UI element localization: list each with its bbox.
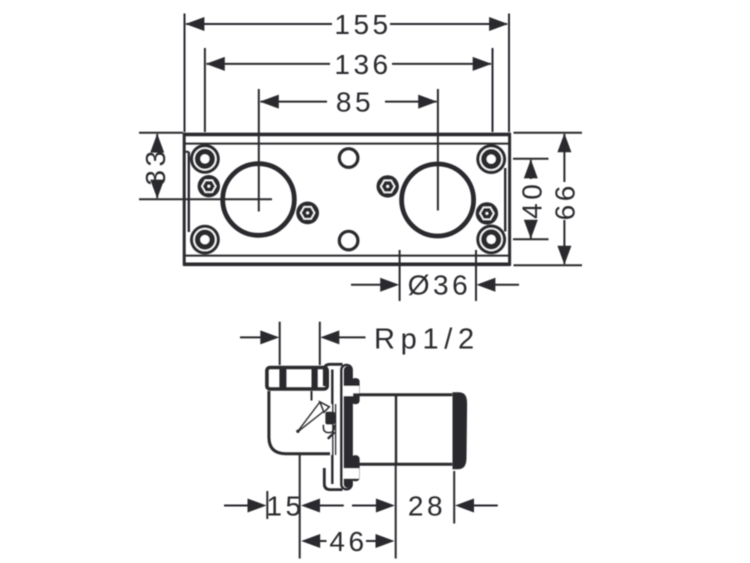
dimension 85 line [261,101,437,103]
screw bottom-left [190,225,220,255]
dimension 46 tail left [320,540,327,542]
svg-text:46: 46 [329,526,367,557]
plate top band inner line [184,143,510,145]
centerline vertical left circle [258,89,260,212]
dimension Rp1/2 extension left [279,322,281,365]
dimension 15 tail right [319,505,344,507]
dimension Rp1/2 arrow right [320,330,339,344]
svg-text:136: 136 [334,49,391,80]
dimension 136 arrow right [473,57,492,71]
plate bottom edge [184,262,511,266]
dimension 66 arrow down [557,246,571,265]
nut left of right circle [377,175,399,197]
dimension 136 arrow left [206,57,225,71]
dimension 15 tail left [224,505,249,507]
dimension D36 line left [351,284,382,286]
svg-text:40: 40 [517,181,548,219]
plate right edge [508,133,511,266]
valve lower stub [328,432,335,439]
dimension 40 arrow down [524,220,538,239]
dimension 155 extension right [508,14,510,133]
flange tab bottom [351,455,359,481]
dimension 85 arrow right [418,95,437,109]
plate left edge [183,133,186,266]
elbow body outline [269,391,330,454]
collar thread bar right [312,367,318,390]
centerline vertical right circle [437,89,439,211]
svg-text:15: 15 [266,491,304,522]
plate top edge [184,133,511,137]
collar threaded nut [267,368,327,390]
plate bottom band inner line [184,255,510,257]
pipe bottom edge [353,463,452,466]
dimension 33 arrow up [150,134,164,153]
dimension 136 line [207,63,492,65]
dimension 46 extension left [299,455,301,559]
pipe divider line [395,396,397,463]
flange central bar outline [341,365,351,489]
dimension Rp1/2 line left [240,336,262,338]
svg-text:28: 28 [408,491,446,522]
flange thin line 1 [332,404,334,455]
dimension D36 line right [494,284,519,286]
flange upper lip [331,370,333,405]
hole circle right [402,164,474,236]
flange tab top [351,378,359,404]
dimension 33 arrow down [150,180,164,199]
svg-text:85: 85 [336,87,374,118]
flange top hook [324,364,342,386]
dimension D36 extension right [475,250,477,301]
elbow inner bore line [311,391,313,401]
dimension 28 tail right [473,505,498,507]
dimension 46 arrow right [376,534,395,548]
TOP VIEW [139,9,582,301]
dimension D36 extension left [399,250,401,301]
valve dark section [325,412,335,425]
dimension Rp1/2 line right [338,336,366,338]
pipe end cap [453,392,468,469]
flange window bottom [344,468,360,478]
screw top-right [476,144,506,174]
flange thin line 2 [335,404,337,455]
nut right of left circle [296,202,319,225]
svg-text:33: 33 [140,147,171,185]
dimension 15 arrow left [248,499,267,513]
dimension 66 extension top [514,132,583,134]
screw bottom-right [476,225,506,255]
small hole top center [339,149,358,168]
nut left column [198,175,220,197]
dimension D36 arrow right [476,278,495,292]
nut right column [476,202,498,224]
dimension D36 arrow left [380,278,399,292]
dimension 136 extension left [204,48,206,132]
dimension 28 arrow right [455,499,474,513]
svg-text:155: 155 [334,9,391,40]
dimension 28 extension right [453,471,455,524]
svg-text:Rp1/2: Rp1/2 [374,324,480,356]
dimension 66 extension bottom [514,264,583,266]
dimension Rp1/2 arrow left [260,330,279,344]
dimension 155 arrow right [489,17,508,31]
valve needle tip dot [296,430,299,433]
dimension 66 line [563,134,565,264]
dimension 40 extension top [513,158,549,160]
flange bottom hook [324,468,342,490]
dimension Rp1/2 extension right [319,322,321,365]
dimension 15 extension left [266,491,268,519]
dimension 46 tail right [366,540,377,542]
dimension 136 extension right [492,48,494,132]
flange central dark line [344,366,352,488]
small hole bottom center [339,231,358,250]
collar thread bar left [279,367,286,390]
svg-text:Ø36: Ø36 [408,270,471,301]
dimension 46 arrow left [301,534,320,548]
dimension 40 arrow up [524,159,538,178]
dimension 155 extension left [184,14,186,133]
LOWER VIEW [224,322,498,559]
screw top-left [190,144,220,174]
dimension 40 line [530,160,532,239]
dimension 33 extension top [139,132,183,134]
dimension 66 arrow up [557,133,571,152]
svg-text:66: 66 [550,182,581,220]
hole circle left [223,164,295,236]
plate left step joint [184,151,189,153]
valve cone symbol [320,402,330,413]
dimension 33 line [156,134,158,198]
dimension 28 arrow left [376,499,395,513]
dimension 40 extension bottom [513,238,549,240]
flange lower lip [331,455,333,484]
centerline horizontal left circle [139,198,272,200]
dimension 85 arrow left [260,95,279,109]
valve cup below [323,425,334,433]
pipe top edge [353,393,452,396]
dimension 155 arrow left [185,17,204,31]
valve needle line 2 [299,412,324,432]
dimension 155 line [186,23,507,25]
dimension 46 extension right [395,464,397,559]
plate right inner step [504,168,506,232]
dimension 28 tail left [352,505,377,507]
valve needle line 1 [298,403,319,431]
dimension 15 arrow right [301,499,320,513]
plate left inner step [188,152,190,232]
flange window top [344,386,360,396]
